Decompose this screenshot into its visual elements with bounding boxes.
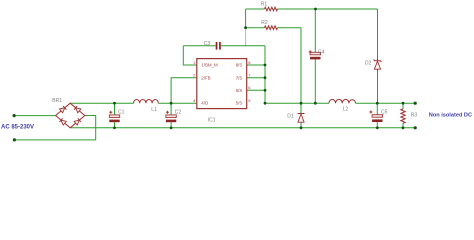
svg-text:C4: C4 [318, 49, 325, 55]
inductor L1 [134, 99, 159, 113]
svg-text:R1: R1 [261, 1, 268, 7]
svg-text:R2: R2 [261, 20, 268, 26]
wire C3 right to S bus [221, 45, 265, 47]
svg-text:AC 85-230V: AC 85-230V [1, 124, 34, 130]
wire C3 left segment [183, 45, 215, 47]
wire D2 bottom lead to rail [377, 70, 379, 103]
wire R2 drop to rail [300, 28, 302, 104]
node C1 top junction [113, 102, 116, 105]
wire C4 bottom lead [314, 59, 316, 103]
wire AC input line 1 [14, 115, 56, 117]
node D1 bottom junction [300, 126, 303, 129]
svg-text:Non isolated DC: Non isolated DC [429, 113, 472, 119]
op-amp U1 / IC1 body [197, 59, 247, 124]
node R1-C4-D2 junction [314, 8, 317, 11]
wire R3 leads [402, 103, 404, 128]
resistor R3 [401, 109, 418, 123]
node D1 top junction [300, 102, 303, 105]
resistor R2 [261, 20, 277, 30]
svg-text:IC1: IC1 [208, 117, 216, 123]
wire rail L2 to output [356, 102, 416, 104]
wire pin6 stub [247, 89, 265, 91]
node pin6 junction [264, 89, 267, 92]
node R3 bottom junction [402, 126, 405, 129]
resistor R1 [261, 1, 278, 10]
wire pin7 stub [247, 77, 265, 79]
svg-text:2/FB: 2/FB [201, 75, 210, 80]
capacitor C1 [109, 110, 124, 123]
wire C4 top lead [314, 9, 316, 52]
svg-text:7/S: 7/S [236, 75, 243, 80]
node R3 top junction [402, 102, 405, 105]
node L2-D2-C5 junction [376, 102, 379, 105]
svg-text:5/S: 5/S [236, 101, 243, 106]
wire C5 leads [376, 103, 378, 128]
wire bottom rail [70, 127, 415, 129]
svg-text:4/D: 4/D [201, 101, 208, 106]
wire rail S to L2 [265, 102, 329, 104]
wire C1 leads [114, 103, 116, 128]
svg-text:6/S: 6/S [236, 88, 243, 93]
svg-text:C1: C1 [118, 110, 125, 116]
wire R2 row left [246, 27, 265, 29]
wire S bus vertical [264, 46, 266, 103]
zener diode D2 [365, 59, 381, 71]
svg-text:R3: R3 [411, 113, 418, 119]
svg-text:L2: L2 [343, 107, 349, 113]
wire rail L1 to pin4 [158, 102, 197, 104]
capacitor C2 [166, 110, 182, 123]
svg-text:1/BM_M: 1/BM_M [201, 63, 218, 68]
svg-text:8/S: 8/S [236, 63, 243, 68]
capacitor C5 [369, 109, 387, 122]
wire AC input line 2 [14, 116, 95, 140]
bridge rectifier BR1 [52, 98, 85, 128]
node C1 bottom junction [113, 126, 116, 129]
node pin5 junction [264, 102, 267, 105]
node C2 bottom junction [170, 126, 173, 129]
node DC output terminal - [414, 126, 417, 129]
node pin7 junction [264, 76, 267, 79]
wire C2 leads [170, 103, 172, 128]
capacitor C3 [204, 41, 221, 50]
wire top net R1 right to D2 corner [278, 8, 378, 10]
wire top net R1 left segment [246, 8, 265, 10]
wire R2 row right [278, 27, 302, 29]
inductor L2 [329, 99, 356, 112]
node C2-FB junction [170, 102, 173, 105]
node C4 bottom junction [314, 102, 317, 105]
svg-text:D2: D2 [365, 61, 372, 67]
svg-text:C5: C5 [381, 109, 388, 115]
node AC terminal 2 [13, 138, 16, 141]
diode D1 [287, 114, 304, 123]
node pin8 junction [264, 64, 267, 67]
wire D2 top lead vertical [377, 9, 379, 59]
capacitor C4 [309, 49, 325, 59]
svg-text:L1: L1 [151, 107, 157, 113]
svg-text:C3: C3 [204, 41, 211, 47]
svg-text:C2: C2 [175, 110, 182, 116]
node DC output terminal + [414, 102, 417, 105]
wire D1 leads [300, 103, 302, 128]
node C5 bottom junction [376, 126, 379, 129]
wire pin8 stub [247, 64, 265, 66]
svg-text:D1: D1 [287, 114, 294, 120]
wire pin2 FB to rail [171, 78, 197, 104]
wire vertical R1/R2 left bus [245, 9, 247, 28]
wire rail bridge to L1 [70, 102, 133, 104]
svg-text:BR1: BR1 [52, 98, 62, 104]
node R2 tap junction [244, 26, 247, 29]
node AC terminal 1 [13, 114, 16, 117]
wire C3 to pin1 drop [183, 46, 197, 65]
